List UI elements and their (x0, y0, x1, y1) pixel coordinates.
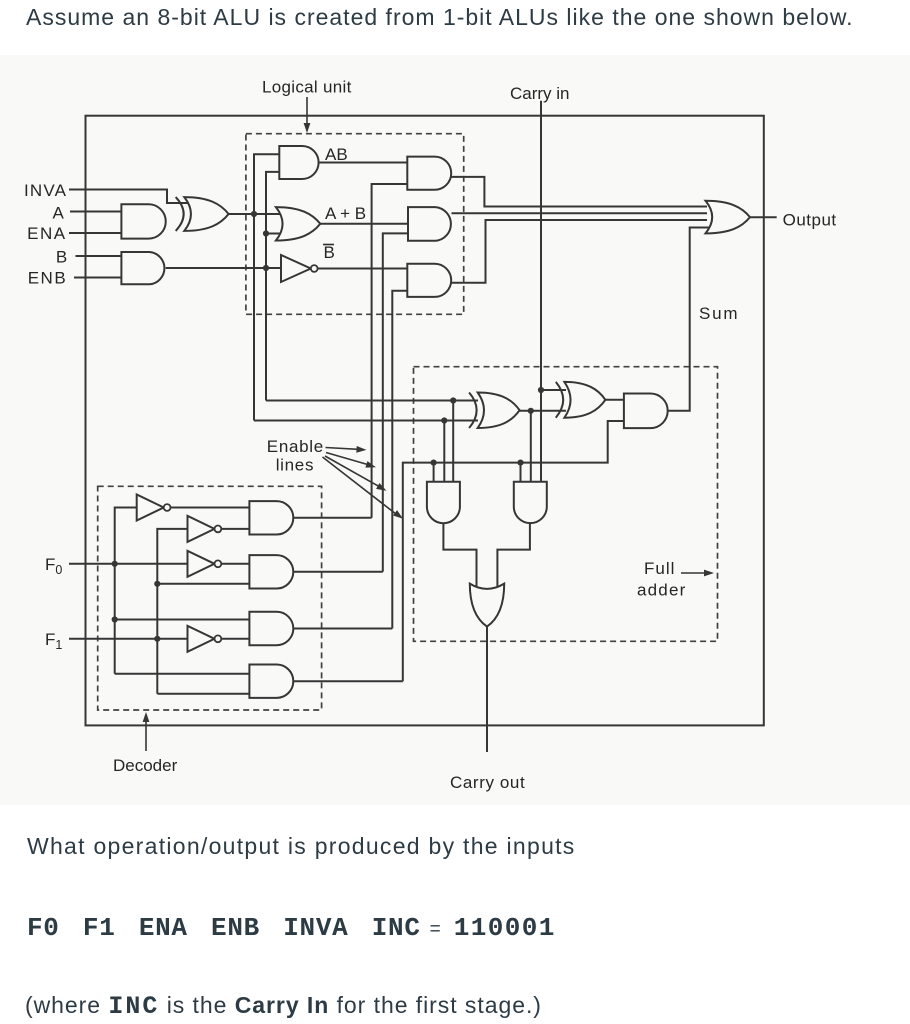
svg-text:Decoder: Decoder (113, 756, 178, 775)
svg-text:B: B (324, 243, 335, 262)
svg-text:Enable: Enable (267, 437, 324, 456)
svg-text:A + B: A + B (325, 204, 366, 223)
svg-text:Carry in: Carry in (510, 84, 570, 103)
svg-text:adder: adder (637, 581, 686, 600)
svg-text:ENB: ENB (28, 269, 67, 288)
svg-text:Logical unit: Logical unit (262, 78, 352, 97)
svg-text:INVA: INVA (24, 181, 67, 200)
svg-text:Full: Full (644, 559, 675, 578)
svg-text:lines: lines (276, 456, 314, 475)
svg-text:B: B (56, 247, 67, 266)
svg-text:Sum: Sum (699, 304, 739, 323)
svg-text:ENA: ENA (27, 224, 66, 243)
svg-text:Output: Output (783, 211, 837, 230)
svg-text:A: A (52, 203, 64, 222)
svg-text:Carry out: Carry out (450, 773, 525, 792)
svg-text:AB: AB (325, 145, 348, 164)
